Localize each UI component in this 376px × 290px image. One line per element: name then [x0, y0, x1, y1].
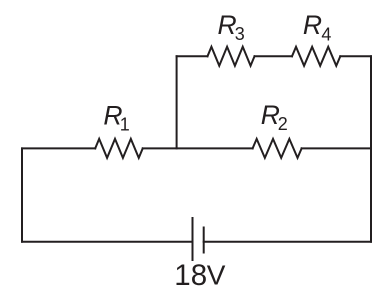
svg-text:3: 3 — [235, 24, 245, 44]
svg-text:18: 18 — [174, 259, 207, 290]
svg-text:R: R — [303, 10, 322, 40]
svg-text:2: 2 — [278, 114, 288, 134]
svg-text:1: 1 — [120, 115, 130, 135]
svg-text:4: 4 — [321, 24, 331, 44]
svg-text:V: V — [207, 260, 226, 290]
